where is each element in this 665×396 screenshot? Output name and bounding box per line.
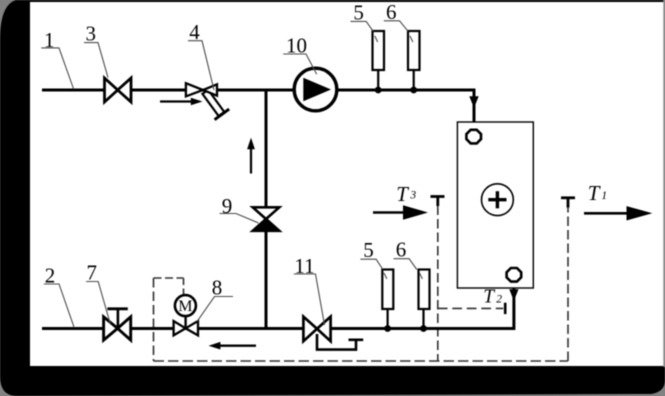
leader label 3 <box>84 43 108 78</box>
dashed horizontal T2 sensor line <box>438 307 503 309</box>
leader label 9 <box>220 214 259 224</box>
T2 end tick <box>504 303 507 314</box>
wire: return pipe bottom <box>42 282 514 329</box>
dashed impulse line: top short to M drive <box>154 277 184 279</box>
flow arrow right (near valve 4) <box>160 98 203 106</box>
leader label 10 <box>283 54 317 74</box>
svg-text:6: 6 <box>386 0 397 24</box>
heater plus symbol <box>482 184 514 216</box>
leader label 1 <box>41 48 73 89</box>
wire: vertical bypass pipe <box>265 90 268 329</box>
valve 4 with inclined actuator <box>186 83 229 119</box>
svg-text:5: 5 <box>363 238 374 262</box>
dashed impulse line: right vertical to T1 <box>567 207 569 361</box>
dashed impulse line: bottom horizontal <box>154 360 569 362</box>
svg-text:3: 3 <box>409 190 416 202</box>
heat exchanger (water heater) <box>457 122 533 288</box>
valve 7 with stem handle <box>104 309 131 340</box>
junction dot bottom 5 <box>384 325 391 332</box>
svg-text:5: 5 <box>353 1 364 25</box>
svg-text:7: 7 <box>87 261 98 285</box>
leader label 6 top <box>384 21 408 31</box>
flow arrow left (return) <box>209 342 257 350</box>
dashed stub down to motor M <box>183 278 185 295</box>
svg-text:11: 11 <box>294 254 314 278</box>
svg-text:T: T <box>588 181 601 205</box>
svg-text:T: T <box>483 287 495 308</box>
wire: supply pipe top <box>42 90 474 130</box>
leader label 2 <box>44 284 74 328</box>
dashed impulse line: left box vertical <box>153 278 155 361</box>
svg-text:4: 4 <box>189 20 200 44</box>
svg-text:2: 2 <box>45 264 56 288</box>
dashed vertical T3 sensor line <box>437 206 439 362</box>
svg-text:M: M <box>178 298 192 315</box>
svg-text:T: T <box>396 182 409 206</box>
arrow into heater top <box>469 96 478 108</box>
sensor well 6 top <box>408 31 420 90</box>
svg-text:1: 1 <box>44 28 55 52</box>
octagon nozzle bottom <box>507 268 522 282</box>
leader label 8 <box>197 297 233 322</box>
leader label 5 bottom <box>360 259 382 269</box>
svg-text:2: 2 <box>496 294 502 306</box>
junction dot top 6 <box>410 87 417 94</box>
sensor well 6 bottom <box>419 270 430 329</box>
sensor well 5 top <box>373 31 385 90</box>
leader label 5 top <box>351 21 374 31</box>
flow arrow up (bypass) <box>247 138 255 174</box>
svg-text:9: 9 <box>222 194 233 218</box>
svg-text:8: 8 <box>212 276 223 300</box>
valve 3 <box>105 78 132 102</box>
T1 connection marker <box>561 198 575 208</box>
svg-text:10: 10 <box>286 34 307 58</box>
svg-text:1: 1 <box>601 190 607 202</box>
leader label 4 <box>188 41 214 90</box>
octagon nozzle top <box>466 130 481 144</box>
arrow out of heater bottom <box>509 289 518 301</box>
sensor well 5 bottom <box>382 270 393 329</box>
leader label 7 <box>86 282 110 325</box>
leader lines <box>41 21 422 328</box>
leader label 11 <box>294 274 325 325</box>
T3 connection marker <box>431 197 445 207</box>
svg-text:3: 3 <box>86 22 97 46</box>
T3 flow arrow <box>373 205 428 219</box>
valve 11 with relief outlet <box>303 317 363 350</box>
T1 flow arrow <box>584 206 652 220</box>
control valve 8 with motor M <box>174 295 198 335</box>
junction dot top 5 <box>375 87 382 94</box>
pump 10 <box>294 68 337 111</box>
svg-text:6: 6 <box>396 238 407 262</box>
valve 9 on bypass <box>253 207 280 231</box>
junction dot bottom 6 <box>420 325 427 332</box>
leader label 6 bottom <box>394 259 417 270</box>
